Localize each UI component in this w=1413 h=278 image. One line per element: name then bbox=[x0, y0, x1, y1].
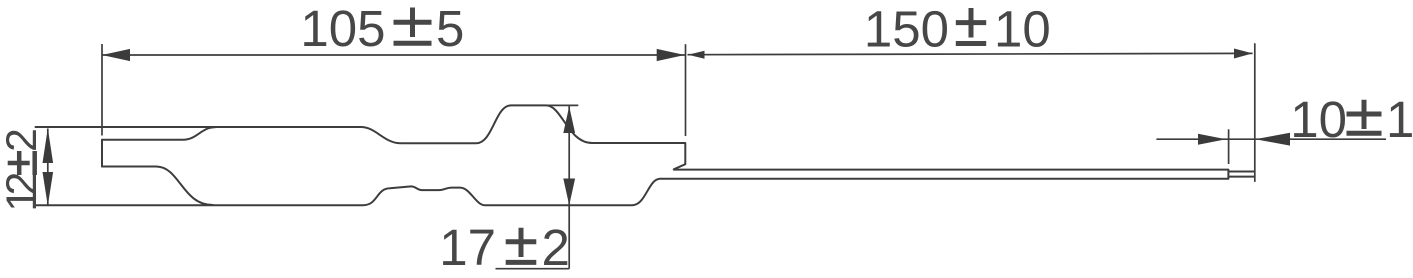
extension line bump top (17 dim) bbox=[546, 104, 578, 106]
arrowhead 150 left (small) bbox=[688, 51, 705, 59]
arrowhead 105 left bbox=[102, 49, 130, 61]
plus-minus of 12±2 bbox=[8, 151, 35, 175]
svg-text:2: 2 bbox=[542, 219, 570, 276]
svg-text:5: 5 bbox=[436, 0, 464, 57]
svg-text:2: 2 bbox=[0, 172, 46, 196]
svg-text:2: 2 bbox=[0, 128, 46, 152]
wire barrel slot: left vertical edge bbox=[101, 140, 103, 167]
svg-text:150: 150 bbox=[864, 1, 949, 58]
dimension/leader line 10 bbox=[1156, 138, 1386, 140]
dimension line 150 bbox=[688, 53, 1253, 54]
arrowhead 17 down bbox=[563, 179, 575, 206]
arrowhead 12 down bbox=[43, 172, 54, 206]
arrowhead 12 up bbox=[43, 128, 54, 163]
plus-minus of 17±2 bbox=[506, 228, 537, 263]
svg-text:105: 105 bbox=[300, 0, 385, 57]
dimension line 105 bbox=[102, 54, 685, 56]
svg-text:1: 1 bbox=[1386, 91, 1413, 148]
dimension line 17 (vertical) bbox=[568, 106, 570, 269]
extension line middle (105/150 dim) bbox=[685, 44, 687, 136]
plus-minus of 105±5 bbox=[394, 8, 432, 44]
extension line right (150 dim / 10 dim right) bbox=[1254, 43, 1256, 182]
extension line insulation end (10 dim left) bbox=[1228, 129, 1230, 164]
svg-text:10: 10 bbox=[994, 1, 1051, 58]
wire barrel slot: top inner line merging into top edge bbox=[102, 127, 215, 140]
label 10±1 bbox=[1290, 91, 1413, 148]
arrowhead 10 right (points left) bbox=[1255, 133, 1290, 146]
underline of 17±2 text bbox=[496, 268, 570, 270]
arrowhead 10 left (points right) bbox=[1198, 134, 1226, 145]
arrowhead 17 up bbox=[563, 106, 575, 133]
svg-text:10: 10 bbox=[1290, 91, 1347, 148]
stripped conductor at wire end bbox=[1228, 172, 1254, 177]
dimension line 12 (vertical) bbox=[47, 129, 49, 206]
label 17±2 bbox=[439, 219, 570, 276]
terminal outline: top contour with insulation bump and step to wire bbox=[34, 105, 1228, 205]
label 150±10 bbox=[864, 1, 1051, 58]
arrowhead 150 right bbox=[1234, 49, 1253, 59]
extension line left (105 dim) bbox=[101, 44, 103, 136]
label 12±2 (rotated) bbox=[0, 128, 46, 212]
svg-text:17: 17 bbox=[439, 219, 496, 276]
arrowhead 105 right bbox=[657, 49, 685, 61]
wire barrel slot: bottom inner line merging into bottom edge bbox=[102, 167, 213, 206]
plus-minus of 150±10 bbox=[956, 8, 986, 44]
label 105±5 bbox=[300, 0, 464, 57]
plus-minus of 10±1 bbox=[1347, 100, 1382, 134]
